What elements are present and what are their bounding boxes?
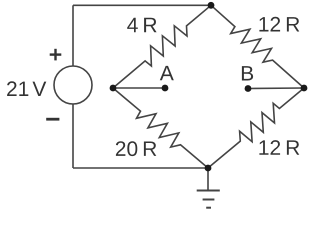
- node right junction: [301, 85, 308, 92]
- label 4 R: [127, 18, 156, 32]
- resistor 12R top: [211, 5, 304, 88]
- label 21 V: [7, 81, 46, 96]
- label node A: [160, 66, 174, 80]
- node B: [245, 85, 252, 92]
- wire node A stub: [113, 87, 165, 89]
- resistor 20R: [113, 88, 208, 168]
- wire source top lead: [72, 5, 74, 66]
- node left junction: [110, 85, 117, 92]
- wire source bottom lead: [72, 104, 74, 168]
- resistor 4R: [113, 5, 211, 88]
- label 20 R: [116, 141, 156, 156]
- voltage source 21V: [54, 66, 92, 104]
- label 12 R bottom: [259, 140, 299, 155]
- node bottom junction: [205, 165, 212, 172]
- polarity minus: [46, 118, 59, 121]
- wire bottom rail: [73, 167, 208, 169]
- node A: [162, 85, 169, 92]
- node top junction: [208, 2, 215, 9]
- label node B: [242, 66, 253, 80]
- label 12 R top: [259, 17, 299, 32]
- wire node B stub: [248, 87, 304, 90]
- polarity plus: [50, 49, 62, 61]
- ground: [197, 168, 220, 208]
- wire top rail: [73, 4, 211, 6]
- resistor 12R bottom: [208, 88, 304, 168]
